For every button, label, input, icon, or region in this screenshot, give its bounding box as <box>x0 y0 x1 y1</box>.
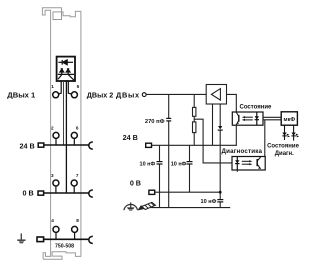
capacitor 270nF plates <box>166 117 171 119</box>
svg-text:1: 1 <box>51 84 54 89</box>
svg-text:Диагн.: Диагн. <box>275 151 294 157</box>
tap wire to diagnostics <box>194 119 232 163</box>
svg-text:4: 4 <box>51 218 54 223</box>
wire box to pin 1 <box>58 81 61 94</box>
cap 10nF no3 plates <box>217 199 223 201</box>
0V rail <box>155 191 221 193</box>
capacitor 270nF wire <box>168 94 170 118</box>
uC box <box>281 112 297 125</box>
svg-text:7: 7 <box>76 173 79 178</box>
pin 5 <box>71 92 77 98</box>
svg-text:Состояние: Состояние <box>240 105 273 111</box>
svg-text:Диагностика: Диагностика <box>222 148 263 155</box>
cap 10nF no1 wire <box>159 145 161 161</box>
resistor R2 <box>193 122 196 133</box>
earth hatched arrow <box>142 202 156 209</box>
earth circle-arrow symbol <box>124 202 138 210</box>
diag LED stub below <box>236 170 238 172</box>
ground symbol <box>17 233 25 240</box>
light arrows right <box>242 161 250 164</box>
earth line <box>151 207 230 209</box>
svg-text:2: 2 <box>51 125 54 130</box>
LED box U1 <box>57 57 75 81</box>
24V connector schematic <box>146 143 152 147</box>
double line to uC <box>263 116 281 118</box>
svg-text:мкФ: мкФ <box>284 117 296 123</box>
svg-text:24 В: 24 В <box>20 142 35 151</box>
svg-text:Состояние: Состояние <box>267 143 300 149</box>
resistor R1 <box>193 107 196 116</box>
svg-text:ДВых 2: ДВых 2 <box>87 90 113 99</box>
resistor wire <box>193 94 195 107</box>
svg-text:24 В: 24 В <box>123 133 138 142</box>
svg-text:ДВых: ДВых <box>116 90 140 99</box>
phototransistor <box>236 112 239 124</box>
zener wire <box>219 104 221 126</box>
junction dot <box>219 191 222 194</box>
diag LED <box>235 157 239 171</box>
0V connector <box>38 191 44 195</box>
24V rail <box>152 144 237 146</box>
zener diode <box>218 126 222 129</box>
svg-text:3: 3 <box>51 173 54 178</box>
cap 10nF no2 wire <box>189 145 191 161</box>
wire opto to 24V rail <box>235 125 237 145</box>
svg-text:8: 8 <box>76 218 79 223</box>
wire to diagnostics box right <box>264 120 266 157</box>
pin 8 <box>72 226 78 232</box>
diode D1 in box <box>58 60 73 65</box>
0V line <box>44 192 90 194</box>
pin 1 <box>53 92 59 98</box>
0V arc <box>89 190 93 197</box>
wire box to pin 5 <box>68 81 71 94</box>
module outline <box>42 8 81 259</box>
svg-text:6: 6 <box>76 125 79 130</box>
LEDs in box <box>58 68 75 80</box>
earth arc <box>89 236 93 243</box>
svg-text:750-508: 750-508 <box>55 244 74 250</box>
driver box <box>206 85 226 105</box>
svg-text:0 В: 0 В <box>130 178 141 187</box>
pin 7 <box>71 180 77 186</box>
DVyh wire <box>146 93 206 95</box>
diagnostics optocoupler box <box>232 157 265 171</box>
pin 6 <box>71 132 77 138</box>
earth line <box>43 238 89 240</box>
svg-text:10 нФ: 10 нФ <box>200 199 216 205</box>
24V line <box>44 144 89 146</box>
opto LED <box>255 112 259 125</box>
0V connector schematic <box>149 190 155 194</box>
terminal circle <box>142 93 146 97</box>
svg-text:270 пФ: 270 пФ <box>145 119 165 125</box>
svg-text:5: 5 <box>77 84 80 89</box>
pin 3 <box>53 180 59 186</box>
earth connector <box>37 237 44 242</box>
light arrows left <box>244 117 252 120</box>
driver triangle <box>211 89 220 101</box>
Sostoyanie optocoupler box <box>232 112 263 125</box>
svg-text:10 нФ: 10 нФ <box>140 162 156 168</box>
diag phototransistor <box>257 157 260 169</box>
svg-text:ДВых 1: ДВых 1 <box>7 90 36 99</box>
svg-text:10 нФ: 10 нФ <box>171 162 187 168</box>
24V connector <box>38 143 44 147</box>
wire box to 0V <box>65 81 67 193</box>
cap 10nF no1 plates <box>157 161 163 163</box>
wire driver to Sostoyanie box <box>227 94 237 112</box>
LED status 2 <box>291 125 295 140</box>
cap 10nF no2 plates <box>187 161 193 163</box>
module top slot <box>53 12 62 20</box>
wire driver pin to 24V rail <box>212 104 214 145</box>
LED status 1 <box>282 125 286 140</box>
wire box to 24V <box>63 81 65 145</box>
pin 4 <box>53 226 59 232</box>
24V arc <box>89 142 93 149</box>
pin 2 <box>53 132 59 138</box>
svg-text:0 В: 0 В <box>23 189 34 198</box>
